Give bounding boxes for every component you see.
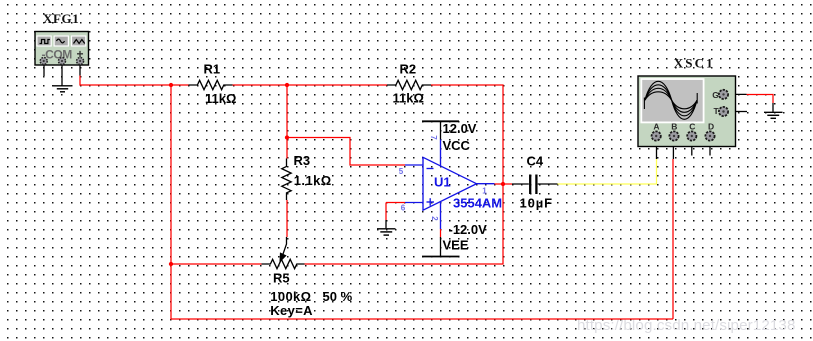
svg-text:3554AM: 3554AM bbox=[453, 195, 502, 210]
svg-text:C4: C4 bbox=[527, 153, 544, 168]
svg-text:5: 5 bbox=[399, 167, 404, 176]
svg-text:VEE: VEE bbox=[443, 238, 469, 253]
svg-text:R1: R1 bbox=[204, 62, 221, 77]
svg-text:-12.0V: -12.0V bbox=[449, 222, 488, 237]
svg-text:T: T bbox=[714, 106, 720, 116]
svg-text:50 %: 50 % bbox=[323, 289, 353, 304]
svg-text:G: G bbox=[712, 90, 719, 100]
svg-text:11kΩ: 11kΩ bbox=[393, 91, 424, 106]
svg-text:1: 1 bbox=[482, 187, 487, 196]
svg-text:R3: R3 bbox=[294, 153, 311, 168]
svg-text:C: C bbox=[689, 122, 695, 132]
svg-text:Key=A: Key=A bbox=[270, 303, 313, 318]
svg-text:2: 2 bbox=[430, 216, 439, 221]
svg-text:U1: U1 bbox=[434, 175, 451, 190]
svg-text:XSC1: XSC1 bbox=[674, 56, 715, 71]
svg-text:100kΩ: 100kΩ bbox=[270, 289, 311, 304]
svg-text:6: 6 bbox=[401, 204, 406, 213]
svg-text:B: B bbox=[671, 122, 677, 132]
svg-text:A: A bbox=[653, 122, 659, 132]
svg-text:R5: R5 bbox=[273, 271, 290, 286]
svg-text:7: 7 bbox=[429, 135, 438, 140]
svg-text:VCC: VCC bbox=[443, 138, 471, 153]
svg-text:12.0V: 12.0V bbox=[443, 121, 477, 136]
svg-text:R2: R2 bbox=[400, 62, 417, 77]
svg-text:11kΩ: 11kΩ bbox=[205, 91, 236, 106]
svg-text:XFG1: XFG1 bbox=[43, 11, 79, 26]
svg-text:D: D bbox=[708, 122, 714, 132]
svg-text:10µF: 10µF bbox=[520, 195, 554, 210]
svg-text:1.1kΩ: 1.1kΩ bbox=[294, 173, 332, 188]
